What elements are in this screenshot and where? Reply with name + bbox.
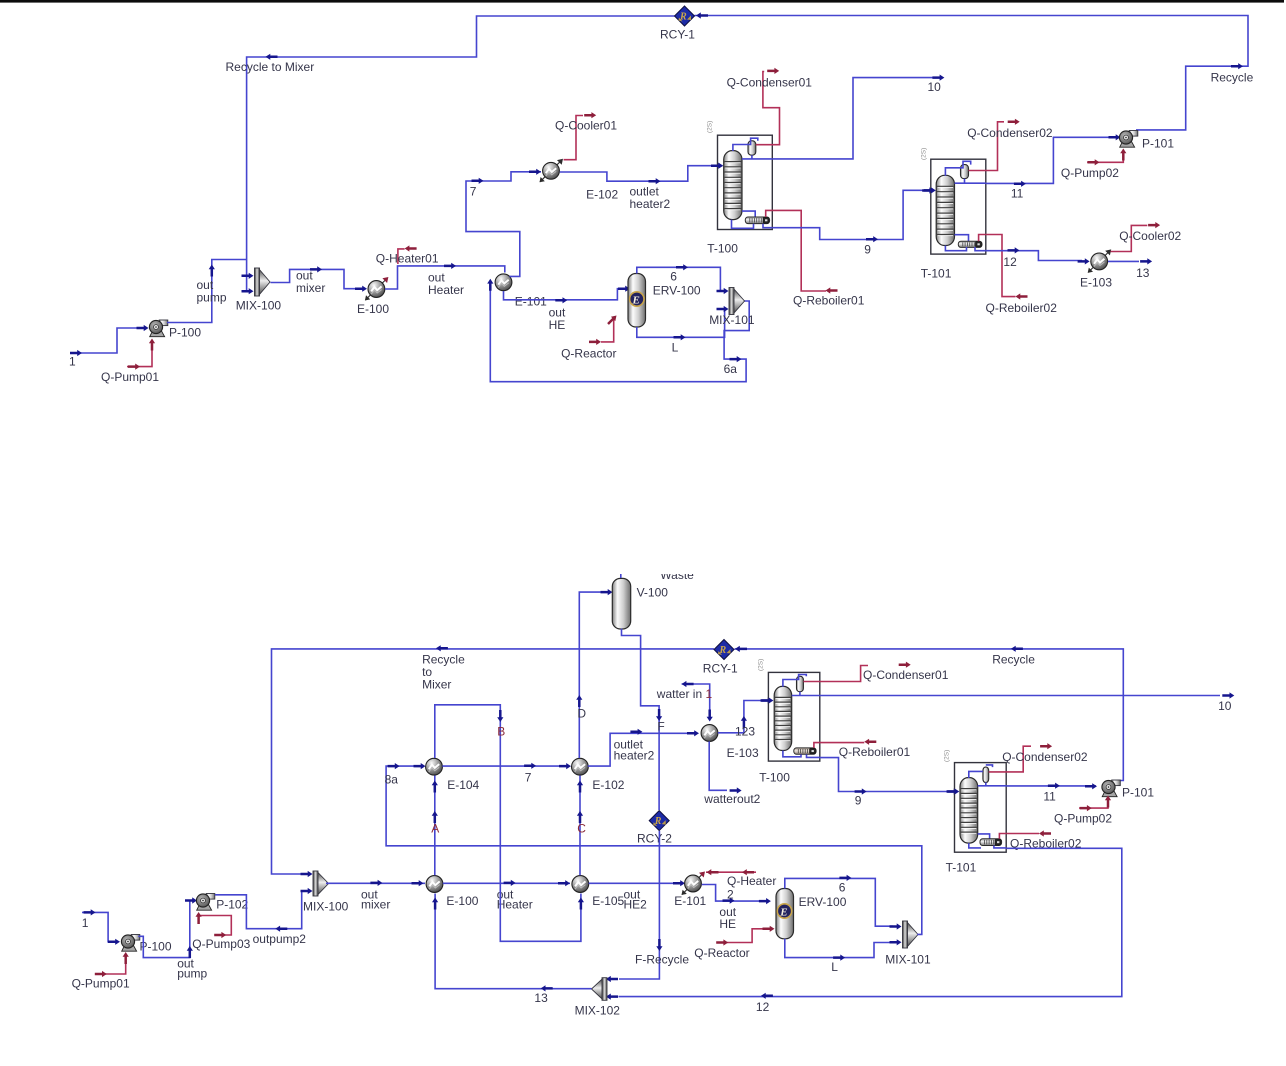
arrowheads Q-Heater bottom [707,869,755,875]
wire Q-Reboiler01 riser T-100 bottom [814,743,820,748]
heat exchanger E-105 bottom [572,876,589,893]
heat exchanger E-101 top [495,274,512,291]
wire Q-Pump02 bottom [1079,797,1108,809]
wire Waste stub bottom [620,574,622,578]
separator V-100 bottom [612,578,630,629]
wire vapor line T-101 bottom [969,765,993,778]
svg-text:(2S): (2S) [921,148,928,160]
svg-text:Recycle to Mixer: Recycle to Mixer [226,60,315,74]
svg-text:Q-Condenser02: Q-Condenser02 [967,126,1053,140]
svg-text:Q-Reboiler01: Q-Reboiler01 [839,745,911,759]
svg-text:outHE: outHE [549,306,566,333]
svg-text:1: 1 [82,916,89,930]
arrowheads Q-Reactor bottom [716,926,774,946]
svg-text:Q-Pump01: Q-Pump01 [101,370,159,384]
pump P-100 top [149,320,167,337]
wire outlet heater2 top [560,166,723,182]
wire stream C bottom [579,776,581,876]
arrowhead feed T-100 top [711,163,723,169]
wire Q-Condenser02 top [969,122,1005,171]
arrowheads recycle right bottom [735,646,1023,652]
wire out pump top [167,260,252,323]
svg-text:E-101: E-101 [515,295,547,309]
wire out pump bottom [138,901,195,958]
svg-text:(2S): (2S) [707,121,714,133]
mixer MIX-100 bottom [313,871,329,896]
wire stream L top [637,309,727,337]
svg-text:E-102: E-102 [592,778,624,792]
wire stream 6a top [490,284,749,382]
wire out HE top [504,289,627,300]
svg-text:(2S): (2S) [944,750,951,762]
svg-text:11: 11 [1011,187,1024,201]
wire V-100 bottoms F [622,629,660,810]
arrowheads Q-Reboiler02 bottom [1039,830,1051,836]
svg-text:RCY-1: RCY-1 [660,28,695,42]
svg-text:T-100: T-100 [707,242,738,256]
svg-text:E: E [632,295,640,307]
arrowheads out Heater top [444,263,456,269]
arrowheads Q-Condenser01 top [767,68,779,74]
arrowheads out pump bottom [185,897,197,958]
svg-text:E-100: E-100 [446,894,478,908]
wire stream D bottom [579,592,606,758]
wire stream 12 top [986,251,1082,261]
svg-text:watter in 1: watter in 1 [656,687,713,701]
svg-text:6a: 6a [724,362,738,376]
arrowheads Q-Cooler01 top [584,112,596,118]
arrowheads Q-Heater01 top [405,245,417,251]
arrowheads out HE2 bottom [673,880,685,886]
arrowheads Q-Pump02 bottom [1080,796,1111,812]
wire Q-Reactor top [601,317,614,342]
pump P-101 bottom [1102,780,1120,797]
svg-text:E-104: E-104 [447,778,479,792]
wire Q-Pump01 top [127,341,152,367]
wire stream 9 bottom [820,758,950,792]
svg-text:R: R [654,816,662,827]
reboiler kettle T-100 bottom [794,748,816,754]
svg-text:MIX-100: MIX-100 [303,900,349,914]
wire stream 13 bottom [435,894,591,989]
arrowhead feed T-101 bottom [947,788,959,794]
wire recycle right bottom [735,649,1124,781]
arrowheads stream 6a top [487,279,741,362]
wire Q-Pump01 bottom [96,954,126,974]
svg-text:P-100: P-100 [169,326,201,340]
wire watter in 1 bottom [682,684,710,718]
svg-text:Q-Reactor: Q-Reactor [561,347,616,361]
arrowheads Q-Pump03 bottom [196,912,227,938]
wire Q-Reboiler02 top [986,235,1016,297]
arrowheads stream 1 top [70,325,149,356]
wire out HE2 bottom [589,882,682,884]
svg-text:P-100: P-100 [140,940,172,954]
recycle operator RCY-1 bottom [714,640,734,660]
svg-text:P-101: P-101 [1142,137,1174,151]
svg-text:Q-Heater01: Q-Heater01 [376,252,439,266]
svg-text:9: 9 [855,794,862,808]
wire Q-Cooler02 top [1111,225,1148,251]
wire stream 123 bottom [718,701,765,733]
svg-text:12: 12 [756,1000,770,1014]
svg-text:10: 10 [928,80,942,94]
wire stream A bottom [434,776,436,876]
mixer MIX-101 bottom [903,921,919,948]
svg-text:B: B [497,725,505,739]
svg-text:Recycle: Recycle [992,653,1035,667]
wire bottoms T-101 top [945,246,985,251]
svg-text:Q-Cooler01: Q-Cooler01 [555,119,617,133]
reboiler kettle T-101 top [958,241,982,247]
wire stream 1 top [70,328,144,353]
arrowheads stream L top [674,306,729,341]
arrowheads stream 12 bottom [606,993,773,1000]
svg-text:Q-Pump01: Q-Pump01 [72,977,130,991]
svg-text:E-103: E-103 [727,746,759,760]
svg-text:13: 13 [1136,266,1150,280]
column vessel T-101 bottom [960,778,978,844]
wire stream B bottom [435,705,581,942]
svg-text:T-101: T-101 [921,267,952,281]
wire stream 6 bottom [785,878,893,926]
svg-text:watterout2: watterout2 [703,792,760,806]
wire vapor line T-100 top [733,138,758,151]
svg-text:Q-Pump02: Q-Pump02 [1054,812,1112,826]
arrowheads stream 8a bottom [388,763,426,769]
arrowheads Q-Condenser01 bottom [899,662,911,668]
svg-text:Q-Condenser01: Q-Condenser01 [863,668,949,682]
arrowheads stream 11 bottom [1048,783,1097,790]
svg-text:2: 2 [727,887,734,901]
wire stream L bottom [785,939,893,958]
wire reflux and stream 11 stub T-101 bottom [978,782,1007,785]
wire recycle top from P-101 to RCY-1 [247,16,1248,292]
arrowheads stream 7 bottom [524,763,571,770]
arrowheads out mixer top [310,266,367,292]
heat exchanger E-104 bottom [426,758,443,775]
wire stream 6 top [637,267,727,291]
svg-text:MIX-100: MIX-100 [236,299,282,313]
svg-text:11: 11 [1043,790,1056,804]
arrowheads stream D bottom [576,589,612,707]
column vessel T-101 top [936,175,954,245]
svg-text:L: L [831,960,838,974]
wire vapor line T-101 top [945,161,970,175]
wire Q-Reboiler01 bottom [820,742,865,744]
wire Q-Condenser01 bottom [803,666,868,682]
svg-text:Q-Pump03: Q-Pump03 [192,937,250,951]
svg-text:T-101: T-101 [946,861,977,875]
arrowheads stream 6 top [676,264,729,294]
arrowheads Q-Pump01 top [128,339,155,370]
svg-text:13: 13 [534,991,548,1005]
svg-text:MIX-102: MIX-102 [575,1004,621,1018]
svg-text:P-102: P-102 [216,898,248,912]
svg-text:6: 6 [839,881,846,895]
arrowheads stream 10 bottom [1222,692,1234,698]
wire reflux and distillate T-100 top [742,155,772,159]
svg-text:8a: 8a [385,773,399,787]
wire reboiler draw T-101 bottom [978,834,990,839]
arrowhead feed T-101 top [924,187,936,193]
wire stream 13 top [1108,260,1139,262]
arrowheads recycle to mixer bottom [301,645,448,877]
wire Q-Condenser01 top [756,72,780,145]
svg-text:RCY-2: RCY-2 [637,832,672,846]
svg-text:outHE: outHE [719,905,736,931]
svg-text:MIX-101: MIX-101 [709,313,755,327]
svg-text:ERV-100: ERV-100 [653,284,701,298]
arrowheads outlet heater2 top [649,163,724,185]
wire reboiler draw T-101 top [955,235,969,242]
arrowheads recycle top [266,12,1244,69]
svg-text:Q-Reboiler01: Q-Reboiler01 [793,294,865,308]
heater E-100 top [365,277,389,301]
arrowheads out HE top [555,286,630,304]
wire stream 10 bottom [820,695,1220,697]
svg-text:Q-Condenser02: Q-Condenser02 [1002,750,1088,764]
svg-text:Recycle: Recycle [1211,71,1254,85]
pump P-102 bottom [196,894,214,911]
arrowheads stream 6 bottom [839,875,901,930]
heat exchanger E-100 bottom [426,876,443,893]
wire Q-Reboiler02 bottom [1006,833,1039,835]
svg-text:Q-Reboiler02: Q-Reboiler02 [986,301,1058,315]
wire Q-Reboiler01 riser T-100 top [766,210,773,217]
mixer MIX-101 top [729,288,745,315]
condenser vessel T-100 bottom [797,676,804,691]
arrowhead feed T-100 bottom [761,697,773,703]
column sub-flowsheet box T-101 bottom [955,763,1007,853]
arrowheads Q-Reboiler01 bottom [864,739,876,745]
wire bottoms T-100 top [732,220,773,229]
svg-text:7: 7 [525,771,532,785]
arrowheads stream 11 top [1014,134,1121,187]
svg-text:L: L [672,341,679,355]
recycle operator RCY-1 top [675,6,695,26]
svg-text:MIX-101: MIX-101 [885,953,931,967]
svg-text:E-102: E-102 [586,188,618,202]
cooler E-102 top [540,159,564,183]
arrowheads F-Recycle bottom [606,939,663,982]
svg-text:(2S): (2S) [758,659,765,671]
arrowheads stream 12 top [1008,247,1090,264]
column sub-flowsheet box T-100 top [718,135,773,229]
svg-text:E-101: E-101 [674,894,706,908]
wire Q-Condenser02 bottom [989,746,1031,772]
arrowheads out pump top [209,265,254,295]
arrowheads Q-Condenser02 top [1008,119,1020,125]
wire bottoms T-101 bottom [969,843,1006,848]
svg-text:ERV-100: ERV-100 [799,895,847,909]
arrowheads stream 7 top [472,169,542,184]
arrowheads stream 9 top [866,187,934,242]
condenser vessel T-101 bottom [983,767,989,782]
mixer MIX-102 bottom [592,978,608,1001]
svg-text:E-100: E-100 [357,302,389,316]
svg-text:A: A [431,822,439,836]
wire stream 9 top [772,190,928,239]
arrowheads Q-Cooler02 top [1148,222,1160,228]
wire outlet heater2 bottom [588,733,695,766]
wire Q-Reboiler02 riser T-101 bottom [999,834,1006,839]
wire outpump2 bottom [215,891,311,929]
svg-text:P-101: P-101 [1122,786,1154,800]
wire reflux and stream 10 stub T-100 bottom [792,692,820,696]
wire stream 1 bottom [82,912,114,941]
wire stream 11 bottom [1006,785,1096,787]
reactor ERV-100 top [628,274,646,328]
svg-text:Q-Heater: Q-Heater [727,874,776,888]
arrowheads Q-Reboiler02 top [1016,293,1028,299]
wire stream 11 top [986,137,1113,183]
wire Q-Reactor bottom [717,929,770,943]
wire F-Recycle bottom [619,831,659,979]
svg-text:E-105: E-105 [592,894,624,908]
heater E-101 bottom [682,872,706,896]
arrowheads outpump2 bottom [275,888,312,932]
arrowheads stream 123 bottom [741,697,773,728]
wire out mixer bottom [326,882,425,884]
condenser vessel T-101 top [961,165,969,179]
wire stream 12 bottom [619,848,1122,996]
arrowheads stream 13 top [1140,258,1152,264]
svg-text:123: 123 [735,725,755,739]
svg-text:outpump2: outpump2 [253,932,307,946]
svg-text:R: R [679,12,687,23]
wire stream 10 top [772,78,933,159]
wire out Heater top [385,266,505,289]
wire Q-Cooler01 top [564,116,583,160]
pump P-101 top [1119,131,1137,148]
svg-text:E-103: E-103 [1080,276,1112,290]
wire recycle to mixer bottom [272,649,715,874]
svg-text:6: 6 [670,270,677,284]
wire stream 7 bottom [442,765,565,767]
svg-text:10: 10 [1218,699,1232,713]
svg-text:T-100: T-100 [759,771,790,785]
arrowheads Q-Reboiler01 top [826,287,838,293]
wire vapor line T-100 bottom [783,675,806,687]
arrowheads stream 10 top [932,75,944,81]
arrowheads stream F bottom [656,709,662,721]
column sub-flowsheet box T-101 top [931,159,986,254]
heat exchanger E-102 bottom [572,758,589,775]
arrowheads out mixer bottom [370,880,423,887]
svg-text:Q-Cooler02: Q-Cooler02 [1119,229,1181,243]
wire reflux and stream 11 stub T-101 top [955,179,986,184]
column vessel T-100 top [724,151,742,220]
svg-text:1: 1 [69,355,76,369]
wire Q-Heater bottom [706,871,756,873]
recycle operator RCY-2 bottom [649,811,669,831]
arrowheads out Heater bottom [504,880,570,887]
column vessel T-100 bottom [774,686,792,750]
mixer MIX-100 top [255,268,271,296]
wire reboiler draw T-100 top [742,211,755,217]
svg-text:9: 9 [864,243,871,257]
heat exchanger E-103 bottom [701,725,718,742]
arrowheads outlet heater2 bottom [630,729,699,737]
svg-text:D: D [577,707,586,721]
svg-text:F: F [657,720,664,734]
wire watterout2 bottom [709,741,727,790]
wire stream 7 top [466,172,541,277]
reboiler kettle T-101 bottom [980,839,1002,846]
wire Q-Pump02 top [1087,150,1123,163]
arrowheads stream 2 bottom [723,898,771,905]
svg-text:V-100: V-100 [637,586,669,600]
wire stream 8a bottom [386,766,922,934]
arrowheads stream B bottom [497,710,584,910]
wire Q-Pump03 bottom [199,914,232,936]
svg-text:RCY-1: RCY-1 [703,662,738,676]
svg-text:E: E [779,907,787,919]
arrowheads Q-Reactor top [589,313,619,345]
wire bottoms T-100 bottom [783,751,820,758]
arrowheads stream L bottom [833,939,901,961]
arrowheads watterout2 bottom [730,787,742,793]
svg-text:Q-Pump02: Q-Pump02 [1061,166,1119,180]
arrowheads stream 1 bottom [84,909,121,945]
pump P-100 bottom [121,935,139,952]
svg-text:C: C [577,822,586,836]
arrowheads Q-Condenser02 bottom [1040,743,1052,749]
wire out Heater bottom [443,882,570,884]
wire stream 2 out HE bottom [702,885,769,902]
svg-text:F-Recycle: F-Recycle [635,953,689,967]
svg-text:7: 7 [470,185,477,199]
arrowheads stream 9 bottom [855,788,959,794]
svg-text:R: R [719,645,727,656]
reactor ERV-100 bottom [776,889,794,939]
wire Q-Reboiler02 riser T-101 top [979,235,986,242]
column sub-flowsheet box T-100 bottom [768,672,819,761]
condenser vessel T-100 top [748,141,756,155]
wire Q-Heater01 top [398,249,405,264]
arrowheads stream A bottom [432,781,438,824]
reboiler kettle T-100 top [745,217,769,224]
wire Q-Reboiler01 top [772,210,826,291]
top page border [0,0,1284,3]
arrowheads watter in bottom [682,681,713,722]
svg-text:Q-Reactor: Q-Reactor [694,946,749,960]
arrowheads Q-Pump02 top [1088,149,1127,166]
cooler E-103 top [1088,249,1112,273]
arrowheads stream C bottom [577,781,583,824]
svg-text:Q-Condenser01: Q-Condenser01 [727,76,813,90]
wire out mixer top [271,269,362,288]
arrowheads stream 13 bottom [432,898,553,992]
arrowheads Q-Pump01 bottom [95,952,129,977]
svg-text:12: 12 [1003,255,1017,269]
